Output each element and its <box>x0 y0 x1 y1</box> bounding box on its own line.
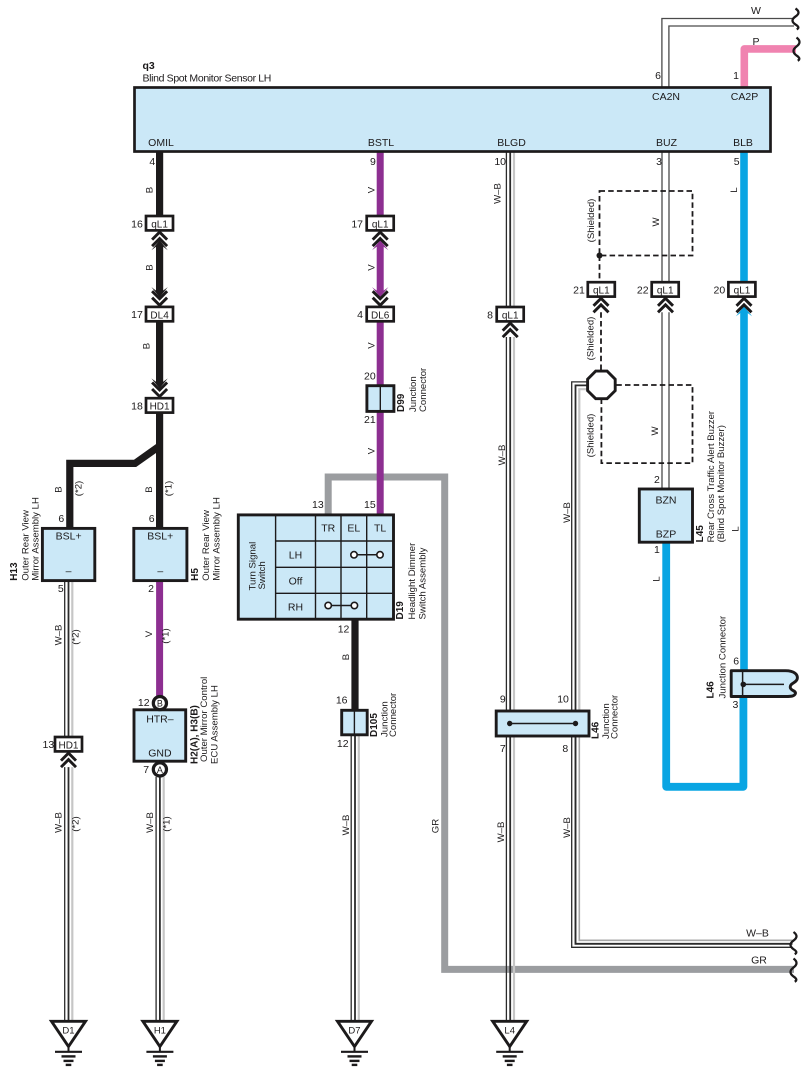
ground D1 <box>52 1021 86 1065</box>
svg-text:BSL+: BSL+ <box>56 531 82 543</box>
svg-text:V: V <box>144 630 155 637</box>
svg-text:(*1): (*1) <box>163 481 174 496</box>
svg-text:Blind Spot Monitor Sensor LH: Blind Spot Monitor Sensor LH <box>143 73 272 85</box>
wire BSTL violet qL1 to DL6 <box>377 245 384 292</box>
svg-text:13: 13 <box>43 739 55 751</box>
svg-text:8: 8 <box>487 309 493 321</box>
svg-text:H1: H1 <box>154 1026 166 1037</box>
arrow below 8 qL1 <box>503 323 518 337</box>
svg-text:D19: D19 <box>395 601 406 620</box>
svg-text:BZP: BZP <box>656 529 676 541</box>
svg-text:20: 20 <box>714 284 726 296</box>
svg-text:Off: Off <box>289 576 303 588</box>
svg-text:10: 10 <box>557 694 569 706</box>
svg-text:8: 8 <box>562 743 568 755</box>
svg-text:BUZ: BUZ <box>656 137 678 149</box>
svg-text:W–B: W–B <box>497 445 508 466</box>
svg-text:(Blind Spot Monitor Buzzer): (Blind Spot Monitor Buzzer) <box>716 425 727 542</box>
svg-text:3: 3 <box>733 699 739 711</box>
svg-text:17: 17 <box>131 309 143 321</box>
wire W-B circle A to ground H1 <box>156 777 164 1022</box>
svg-text:BSTL: BSTL <box>368 137 394 149</box>
connector 22 qL1 box <box>652 282 679 296</box>
svg-text:B: B <box>341 654 352 660</box>
junction connector L46 right box with torn edge <box>731 671 797 697</box>
wire black D19 pin12 to D105 <box>351 618 358 712</box>
svg-text:(*1): (*1) <box>162 816 173 831</box>
svg-text:HTR–: HTR– <box>146 714 174 726</box>
svg-text:5: 5 <box>734 156 740 168</box>
connector 18 HD1 box <box>146 398 173 412</box>
svg-text:9: 9 <box>370 156 376 168</box>
svg-text:(Shielded): (Shielded) <box>586 199 597 243</box>
wire OMIL black DL4 to HD1 <box>156 321 163 382</box>
svg-text:W–B: W–B <box>145 812 156 833</box>
svg-text:BLGD: BLGD <box>497 137 526 149</box>
connector 16 qL1 box <box>146 216 173 230</box>
wire BSTL violet vertical pin9 to D19 TL <box>377 151 384 216</box>
wire P pink CA2P up and right to break <box>744 49 796 87</box>
wire W-B D105 to ground D7 <box>351 734 359 1022</box>
svg-text:qL1: qL1 <box>657 285 674 296</box>
wire OMIL black HD1 to H5 <box>156 413 163 529</box>
switch contact LH row EL-TL <box>354 554 380 556</box>
svg-text:P: P <box>752 36 759 48</box>
svg-text:–: – <box>66 566 72 578</box>
ground D7 <box>338 1021 372 1065</box>
svg-text:qL1: qL1 <box>151 219 168 230</box>
svg-text:L45: L45 <box>695 525 706 543</box>
break squiggle W-B bottom <box>791 932 797 954</box>
svg-text:V: V <box>366 447 377 454</box>
svg-text:TL: TL <box>374 523 386 535</box>
svg-text:CA2N: CA2N <box>652 91 680 103</box>
svg-text:21: 21 <box>364 414 376 426</box>
wire black branch to H13 <box>70 446 160 529</box>
svg-text:(Shielded): (Shielded) <box>586 317 597 361</box>
svg-text:Connector: Connector <box>418 367 429 412</box>
svg-text:W–B: W–B <box>54 625 65 646</box>
connector 4 DL6 box <box>367 307 394 321</box>
junction connector L46 left box <box>496 711 589 736</box>
svg-text:Connector: Connector <box>610 694 621 739</box>
svg-text:D1: D1 <box>62 1026 74 1037</box>
arrow above 17 DL4 <box>151 287 167 297</box>
ground L4 <box>493 1021 527 1065</box>
svg-text:2: 2 <box>148 583 154 595</box>
svg-text:W–B: W–B <box>562 817 573 838</box>
svg-text:W–B: W–B <box>54 812 65 833</box>
wire BSTL violet DL6 to D19 TL <box>377 321 384 516</box>
svg-text:H5: H5 <box>190 568 201 581</box>
arrow above 4 DL6 <box>372 287 388 297</box>
svg-text:BSL+: BSL+ <box>147 531 173 543</box>
svg-text:B: B <box>142 343 153 349</box>
svg-text:V: V <box>366 264 377 271</box>
wire W-B BLGD pin10 through L46 to ground L4 <box>506 151 514 307</box>
svg-text:W: W <box>651 217 662 227</box>
svg-text:LH: LH <box>289 550 302 562</box>
svg-text:(*2): (*2) <box>71 629 82 644</box>
svg-text:1: 1 <box>654 544 660 556</box>
shield octagon <box>588 371 616 399</box>
connector 17 DL4 box <box>146 307 173 321</box>
svg-text:17: 17 <box>351 218 363 230</box>
svg-text:3: 3 <box>656 156 662 168</box>
svg-text:EL: EL <box>347 523 360 535</box>
terminal circle A <box>153 763 166 776</box>
svg-text:–: – <box>157 566 163 578</box>
svg-text:4: 4 <box>149 156 155 168</box>
svg-text:6: 6 <box>733 655 739 667</box>
svg-text:16: 16 <box>336 694 348 706</box>
svg-text:HD1: HD1 <box>150 402 170 413</box>
svg-text:1: 1 <box>733 70 739 82</box>
arrow above 18 HD1 <box>151 378 167 388</box>
svg-text:BLB: BLB <box>733 137 753 149</box>
svg-text:Junction Connector: Junction Connector <box>718 615 729 698</box>
svg-text:L: L <box>731 526 742 532</box>
svg-text:L: L <box>652 576 663 582</box>
wire GR gray path D19 pin13 to bottom right <box>328 477 794 969</box>
svg-text:q3: q3 <box>143 60 155 72</box>
svg-text:A: A <box>157 765 163 775</box>
junction connector D105 box <box>342 710 368 735</box>
svg-text:L4: L4 <box>504 1026 515 1037</box>
svg-text:Switch: Switch <box>257 561 268 589</box>
svg-text:V: V <box>366 186 377 193</box>
svg-text:D99: D99 <box>396 393 407 412</box>
arrow below 21 qL1 <box>594 298 609 312</box>
arrow below 13 HD1 <box>61 753 76 767</box>
svg-text:7: 7 <box>500 743 506 755</box>
svg-text:GR: GR <box>431 819 442 833</box>
svg-text:H13: H13 <box>9 562 20 581</box>
svg-text:Mirror Assembly LH: Mirror Assembly LH <box>211 497 222 581</box>
svg-text:6: 6 <box>655 70 661 82</box>
arrow below 17 qL1 <box>372 240 388 250</box>
arrow below 22 qL1 <box>658 298 673 312</box>
svg-text:RH: RH <box>288 602 303 614</box>
svg-text:9: 9 <box>500 694 506 706</box>
junction connector D99 box <box>367 386 394 412</box>
ground H1 <box>143 1021 177 1065</box>
svg-text:BZN: BZN <box>656 495 677 507</box>
svg-text:7: 7 <box>143 764 149 776</box>
svg-text:W: W <box>751 5 761 17</box>
svg-text:W–B: W–B <box>562 502 573 523</box>
svg-text:B: B <box>54 486 65 492</box>
buzzer L45 box <box>639 489 692 542</box>
svg-text:HD1: HD1 <box>58 740 78 751</box>
svg-text:W–B: W–B <box>746 928 769 940</box>
svg-text:W–B: W–B <box>493 183 504 204</box>
svg-text:B: B <box>145 187 156 193</box>
break squiggle P top <box>794 38 800 61</box>
shield dashed drain wire 21 qL1 to octagon <box>600 312 602 372</box>
svg-text:5: 5 <box>58 583 64 595</box>
shield dashed drain wire to 21 qL1 <box>599 256 601 284</box>
svg-text:(*2): (*2) <box>71 816 82 831</box>
svg-text:D7: D7 <box>348 1026 360 1037</box>
ECU q3 Blind Spot Monitor Sensor LH box <box>135 88 771 152</box>
svg-text:DL6: DL6 <box>371 310 390 321</box>
connector 8 qL1 box <box>497 307 524 321</box>
svg-text:20: 20 <box>364 370 376 382</box>
switch contact RH row TR-EL <box>328 605 354 607</box>
wire W BUZ pin3 to L45 BZN <box>662 151 669 282</box>
connector 21 qL1 box <box>588 282 615 296</box>
wire L blue BLB pin5 down to L46 right pin6 <box>740 151 748 282</box>
wire W-B 13 HD1 to ground D1 <box>65 767 73 1022</box>
svg-text:(*2): (*2) <box>73 481 84 496</box>
arrow below 16 qL1 <box>151 240 167 250</box>
wire W-B L46 pin10 up to shield octagon <box>572 382 589 712</box>
svg-text:6: 6 <box>58 513 64 525</box>
connector 20 qL1 box <box>728 282 755 296</box>
svg-text:qL1: qL1 <box>734 285 751 296</box>
svg-text:TR: TR <box>321 523 335 535</box>
wire OMIL black qL1 to DL4 <box>156 245 163 292</box>
svg-text:12: 12 <box>337 738 349 750</box>
wire W 22 qL1 to L45 BZN <box>662 312 669 490</box>
break squiggle GR bottom <box>791 959 797 982</box>
svg-text:(Shielded): (Shielded) <box>586 414 597 458</box>
wire W-B 8 qL1 through L46 to ground L4 <box>506 337 514 1022</box>
svg-text:4: 4 <box>357 309 363 321</box>
svg-text:15: 15 <box>364 499 376 511</box>
wire OMIL black vertical pin4 to H5 <box>156 151 163 216</box>
svg-text:18: 18 <box>131 401 143 413</box>
shield dashed box upper <box>600 191 693 256</box>
wire violet H5 pin2 to circle B <box>156 580 163 697</box>
svg-text:B: B <box>157 699 163 709</box>
svg-text:GR: GR <box>751 955 767 967</box>
mirror H13 BSL+ box <box>42 528 94 580</box>
svg-text:L: L <box>729 187 740 193</box>
shield junction dot <box>597 253 603 259</box>
svg-text:22: 22 <box>637 284 649 296</box>
wire W-B H13 pin5 to ground D1 <box>65 580 73 737</box>
arrow below 20 qL1 <box>736 306 752 316</box>
svg-text:Headlight Dimmer: Headlight Dimmer <box>407 542 418 620</box>
svg-text:qL1: qL1 <box>372 219 389 230</box>
svg-text:Switch Assembly: Switch Assembly <box>418 547 429 619</box>
svg-text:2: 2 <box>654 474 660 486</box>
svg-text:W: W <box>650 426 661 436</box>
terminal circle B <box>153 697 166 710</box>
ECU H2 HTR box <box>134 710 186 761</box>
svg-text:Mirror Assembly LH: Mirror Assembly LH <box>30 497 41 581</box>
svg-text:6: 6 <box>149 513 155 525</box>
svg-text:12: 12 <box>338 623 350 635</box>
svg-text:(*1): (*1) <box>161 628 172 643</box>
svg-text:W–B: W–B <box>341 815 352 836</box>
svg-text:W–B: W–B <box>496 822 507 843</box>
wire L blue 20 qL1 to L46 right pin6 <box>740 312 748 672</box>
svg-text:qL1: qL1 <box>593 285 610 296</box>
mirror H5 BSL+ box <box>134 528 187 580</box>
svg-text:B: B <box>144 486 155 492</box>
connector 13 HD1 box <box>55 737 82 751</box>
svg-text:12: 12 <box>138 697 150 709</box>
svg-text:V: V <box>366 342 377 349</box>
svg-text:ECU Assembly LH: ECU Assembly LH <box>210 685 221 764</box>
svg-text:qL1: qL1 <box>502 311 519 322</box>
svg-text:Connector: Connector <box>388 692 399 737</box>
svg-text:16: 16 <box>131 218 143 230</box>
switch D19 table <box>238 515 393 619</box>
wire W CA2N up and right to break <box>662 19 794 88</box>
wire W-B L46 pin8 down to bottom right <box>572 735 793 947</box>
wire L blue L45 BZP loop to L46 right pin3 <box>666 541 743 787</box>
break squiggle W top <box>793 9 799 30</box>
svg-text:CA2P: CA2P <box>731 91 758 103</box>
shield dashed box lower <box>601 385 692 463</box>
svg-text:DL4: DL4 <box>150 310 169 321</box>
svg-text:L46: L46 <box>705 681 716 699</box>
svg-text:10: 10 <box>494 156 506 168</box>
svg-text:13: 13 <box>312 499 324 511</box>
svg-text:OMIL: OMIL <box>148 137 174 149</box>
svg-text:Outer Mirror Control: Outer Mirror Control <box>199 677 210 762</box>
svg-text:B: B <box>145 264 156 270</box>
svg-text:21: 21 <box>573 284 585 296</box>
connector 17 qL1 box <box>367 216 394 230</box>
svg-text:GND: GND <box>148 748 172 760</box>
